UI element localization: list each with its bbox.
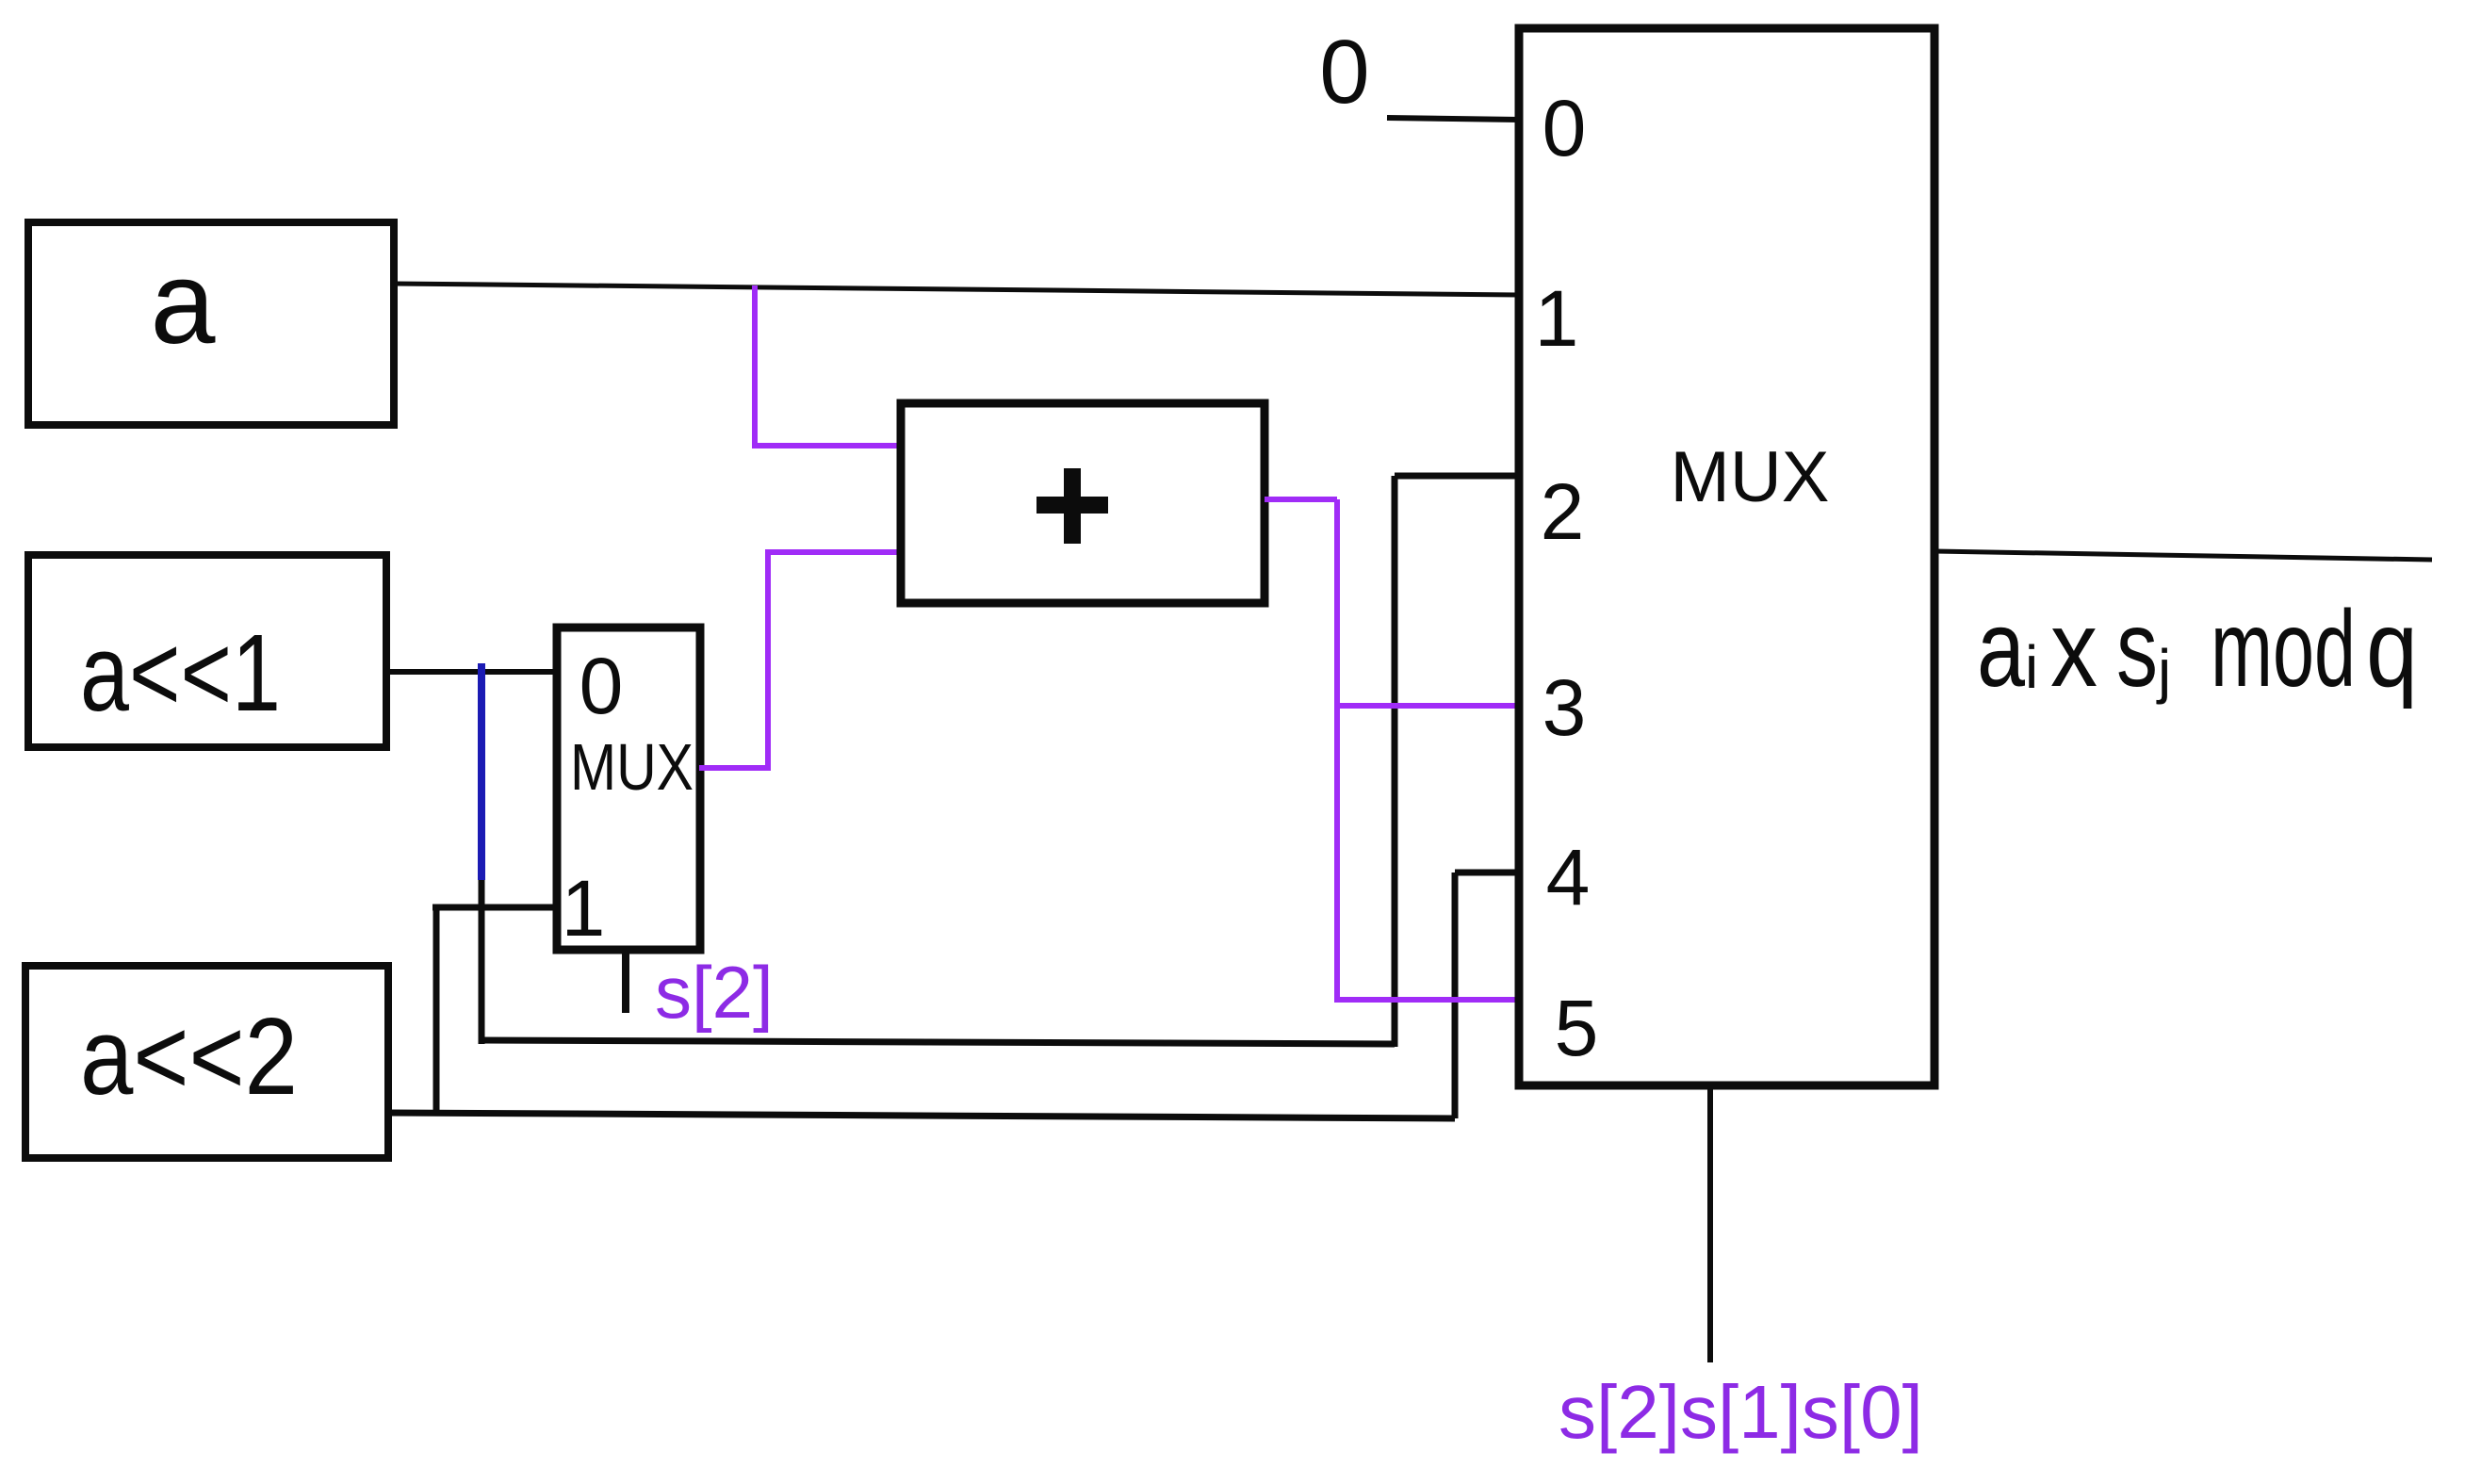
wire net a: register U1 output to big MUX U5 input 1 xyxy=(394,284,1519,295)
wire purple adder U6 output run xyxy=(1265,499,1337,1003)
svg-text:mod: mod xyxy=(2211,589,2356,709)
svg-text:2: 2 xyxy=(1541,467,1585,556)
svg-text:5: 5 xyxy=(1555,984,1599,1072)
register U3 (operand a&lt;&lt;2) xyxy=(25,966,388,1158)
svg-text:0: 0 xyxy=(1319,22,1369,122)
svg-text:x: x xyxy=(2050,589,2097,709)
svg-text:s[2]: s[2] xyxy=(655,951,774,1034)
wire into big MUX U5 pin 4 xyxy=(1455,870,1519,876)
svg-text:1: 1 xyxy=(562,864,606,953)
wire purple into big MUX U5 pin 3 xyxy=(1337,703,1519,709)
svg-text:i: i xyxy=(2025,633,2038,701)
wire riser up to big MUX input 2 level xyxy=(1392,476,1398,1047)
svg-text:4: 4 xyxy=(1546,833,1591,921)
net label output: ai x sj mod q xyxy=(1977,589,2418,709)
svg-text:s: s xyxy=(2116,589,2158,709)
svg-text:j: j xyxy=(2156,637,2171,705)
wire black continuation of drop down to node C xyxy=(479,880,485,1044)
svg-text:3: 3 xyxy=(1542,663,1587,752)
wire constant 0 into big MUX U5 pin 0 xyxy=(1387,118,1519,120)
wire U4 select stub xyxy=(622,950,629,1013)
wire net a&lt;&lt;1: register U2 output to small MUX U4 input 0 xyxy=(386,669,560,675)
wire U5 select stub xyxy=(1707,1085,1713,1362)
svg-text:1: 1 xyxy=(1535,274,1579,363)
wire big MUX U5 output xyxy=(1934,551,2432,560)
svg-text:s[2]s[1]s[0]: s[2]s[1]s[0] xyxy=(1559,1370,1923,1454)
svg-text:a: a xyxy=(151,238,216,368)
svg-text:0: 0 xyxy=(579,642,624,730)
register U2 (operand a&lt;&lt;1) xyxy=(28,555,386,747)
adder U6 xyxy=(901,403,1265,603)
wire purple into big MUX U5 pin 5 xyxy=(1337,997,1519,1003)
wire net a&lt;&lt;2: register U3 output long run to input-4 riser xyxy=(388,1113,1455,1118)
register U1 (operand a) xyxy=(28,222,394,425)
wire horizontal run from node C toward input-2 riser xyxy=(479,1040,1395,1044)
svg-text:a<<2: a<<2 xyxy=(80,995,298,1117)
plus symbol xyxy=(1036,497,1108,514)
svg-text:MUX: MUX xyxy=(1671,437,1830,517)
wire blue drop segment from net a&lt;&lt;1 at node B xyxy=(478,663,485,880)
wire into small MUX U4 pin 1 xyxy=(433,905,560,911)
svg-text:a<<1: a<<1 xyxy=(80,612,281,734)
svg-text:MUX: MUX xyxy=(570,730,694,804)
svg-text:0: 0 xyxy=(1542,84,1587,172)
wire purple tap from net a to adder U6 input A xyxy=(752,285,901,446)
mux U4 (2:1 MUX) xyxy=(557,628,700,953)
wire drop from U4 pin-1 net down to net a&lt;&lt;2 xyxy=(433,907,440,1116)
wire riser up to big MUX input 4 level xyxy=(1452,872,1459,1118)
wire purple from U4 output to adder U6 input B xyxy=(699,549,901,771)
mux U5 (6:1 MUX) xyxy=(1519,28,1934,1085)
svg-text:a: a xyxy=(1977,589,2025,709)
svg-text:q: q xyxy=(2366,589,2418,709)
wire into big MUX U5 pin 2 xyxy=(1395,473,1519,480)
